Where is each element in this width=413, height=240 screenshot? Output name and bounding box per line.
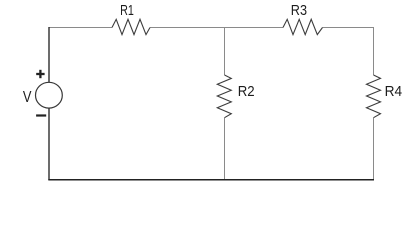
svg-text:R1: R1 (120, 3, 134, 19)
svg-text:R3: R3 (291, 3, 307, 19)
svg-text:R4: R4 (385, 84, 403, 100)
svg-text:V: V (23, 89, 32, 106)
svg-text:R2: R2 (238, 84, 255, 100)
